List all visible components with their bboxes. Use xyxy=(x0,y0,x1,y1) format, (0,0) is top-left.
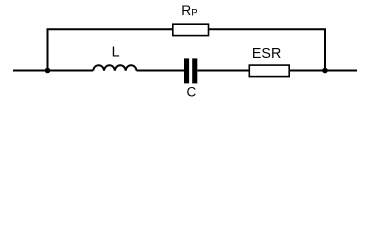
node: left junction dot xyxy=(45,68,51,74)
capacitor C right plate xyxy=(192,58,197,83)
svg-text:C: C xyxy=(187,84,197,99)
wire: right vertical riser xyxy=(324,29,326,70)
resistor ESR xyxy=(249,65,289,77)
inductor L xyxy=(93,65,136,70)
svg-text:ESR: ESR xyxy=(252,46,281,62)
wire: capacitor to ESR xyxy=(197,70,249,72)
capacitor C left plate xyxy=(184,58,189,83)
wire: bottom right lead xyxy=(289,70,357,72)
node: right junction dot xyxy=(322,68,328,74)
resistor RP xyxy=(173,24,209,35)
wire: bottom left lead xyxy=(13,70,93,72)
svg-text:L: L xyxy=(112,45,120,61)
wire: left vertical riser xyxy=(47,29,49,70)
wire: inductor to capacitor xyxy=(137,70,185,72)
wire: top left segment xyxy=(47,28,173,30)
wire: top right segment xyxy=(209,28,327,30)
